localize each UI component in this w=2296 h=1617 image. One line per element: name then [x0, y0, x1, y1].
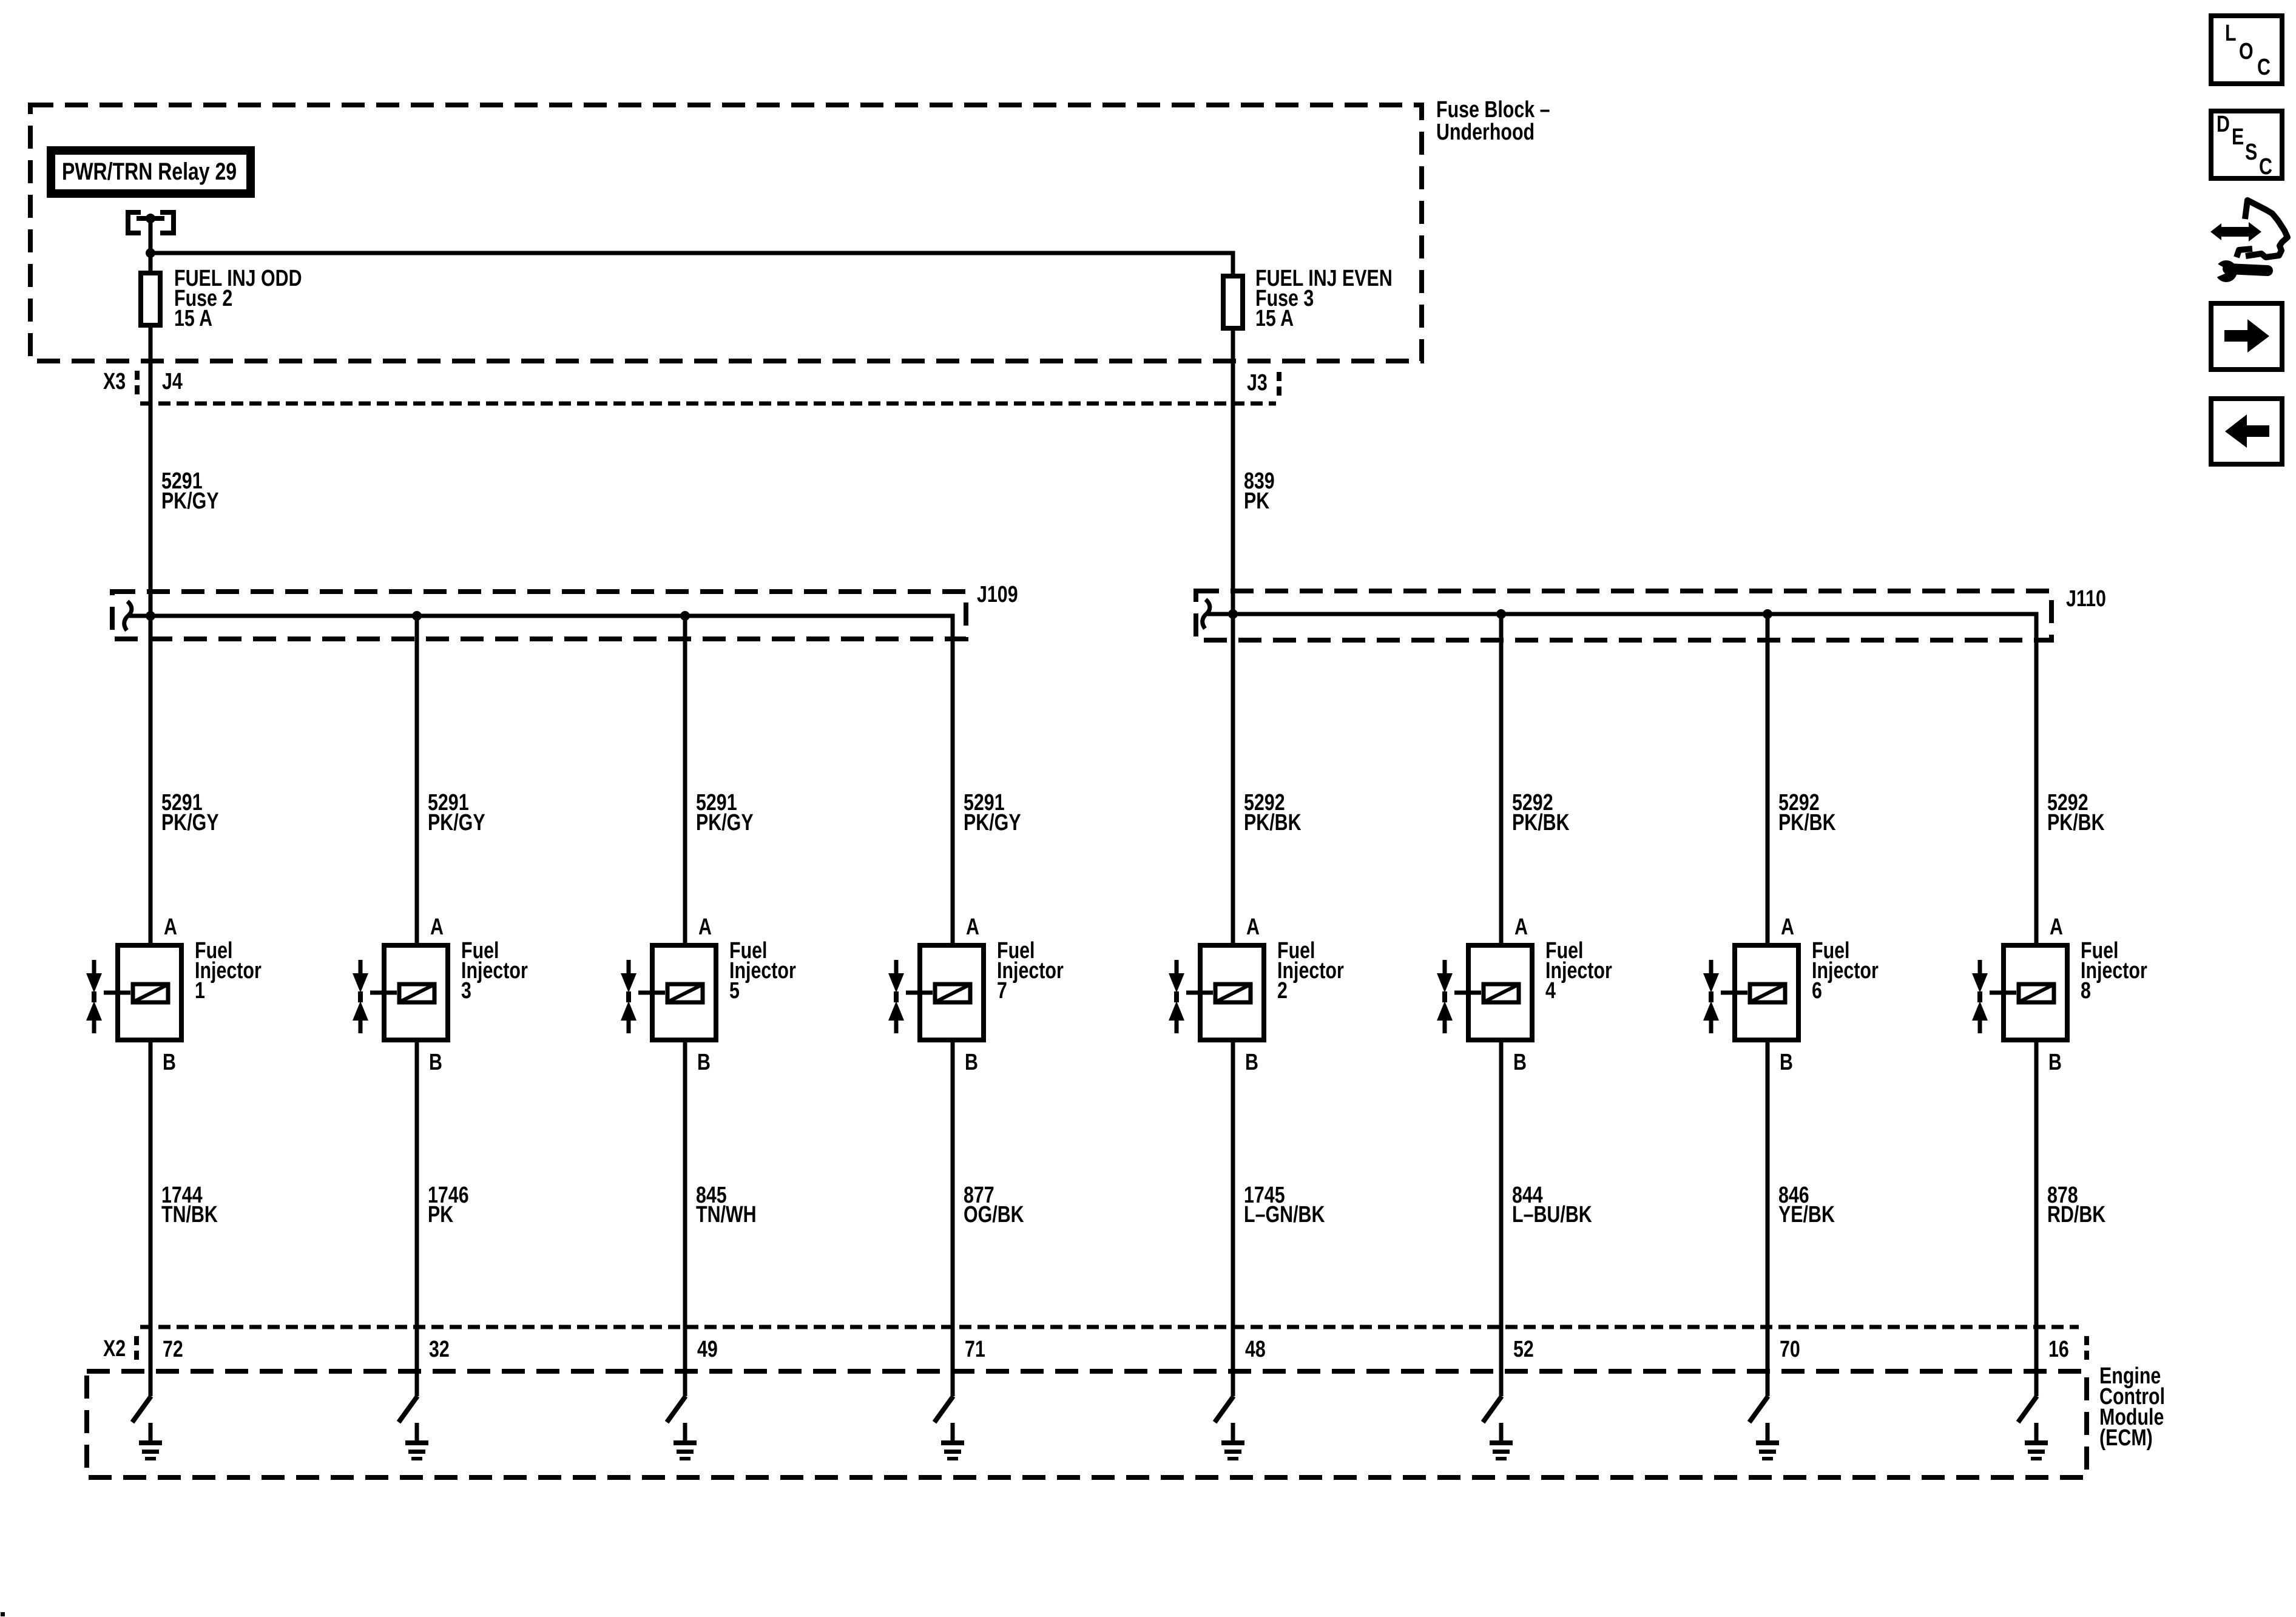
engine control module dashed box [87, 1371, 2087, 1477]
wire label 844 L–BU/BK [1512, 1183, 1592, 1227]
svg-text:C: C [2257, 55, 2271, 80]
wire odd fuse down [149, 327, 153, 945]
svg-text:J109: J109 [977, 582, 1018, 607]
svg-text:7: 7 [997, 978, 1007, 1004]
svg-text:15 A: 15 A [1255, 306, 1294, 331]
svg-text:B: B [1513, 1050, 1527, 1075]
splice pack J110 dashed box [1196, 591, 2051, 640]
ground injector 5 driver [674, 1423, 697, 1460]
driver switch injector 5 [667, 1396, 686, 1422]
svg-text:B: B [965, 1050, 978, 1075]
fuse F3 FUEL INJ EVEN 15A [1223, 266, 1393, 331]
svg-text:2: 2 [1277, 978, 1288, 1004]
driver switch injector 8 [2018, 1396, 2037, 1422]
svg-text:L: L [2225, 21, 2237, 46]
wire label 877 OG/BK [964, 1183, 1024, 1227]
splice pack J109 dashed box [112, 592, 966, 639]
wire label 5292 PK/BK circuit injector 6 [1778, 790, 1836, 836]
fuel injector 6 [1703, 938, 1879, 1040]
wire injector 4 to ECM [1499, 1040, 1504, 1396]
wire label 5292 PK/BK circuit injector 8 [2047, 790, 2105, 836]
svg-text:49: 49 [697, 1337, 718, 1362]
wire injector 7 to ECM [951, 1040, 955, 1396]
svg-text:1: 1 [195, 978, 205, 1004]
wire label 1745 L–GN/BK [1244, 1183, 1325, 1227]
icon LOC box [2211, 16, 2282, 84]
connector X3/J4 separator [135, 371, 140, 396]
fuel injector 1 [86, 938, 262, 1040]
wire J109 to injector 5 [683, 616, 687, 945]
svg-text:48: 48 [1245, 1337, 1266, 1362]
wire even fuse down [1231, 328, 1235, 945]
fuel injector 5 [621, 938, 796, 1040]
wire label 1744 TN/BK [161, 1183, 218, 1227]
svg-text:A: A [966, 914, 979, 940]
wire label 5291 PK/GY circuit injector 3 [428, 790, 485, 836]
wire label 878 RD/BK [2047, 1183, 2105, 1227]
wire relay to junction [149, 218, 153, 275]
wire label 846 YE/BK [1778, 1183, 1835, 1227]
icon forward arrow box [2211, 303, 2282, 370]
svg-text:YE/BK: YE/BK [1778, 1202, 1835, 1227]
driver switch injector 6 [1749, 1396, 1768, 1422]
svg-text:72: 72 [163, 1337, 183, 1362]
svg-text:PK/BK: PK/BK [1512, 810, 1570, 836]
svg-text:PK/GY: PK/GY [161, 488, 219, 514]
ground injector 1 driver [139, 1423, 162, 1460]
svg-text:71: 71 [965, 1337, 985, 1362]
wire label 5292 PK/BK circuit injector 2 [1244, 790, 1302, 836]
svg-text:A: A [164, 914, 177, 940]
node J109-3 [680, 611, 690, 621]
svg-text:PK/GY: PK/GY [428, 810, 485, 836]
driver switch injector 3 [399, 1396, 417, 1422]
svg-text:D: D [2217, 112, 2230, 137]
node J110-1 [1228, 609, 1238, 619]
svg-text:OG/BK: OG/BK [964, 1202, 1024, 1227]
svg-text:A: A [698, 914, 712, 940]
svg-text:L–GN/BK: L–GN/BK [1244, 1202, 1325, 1227]
connector X2 separator [134, 1336, 139, 1365]
svg-text:32: 32 [429, 1337, 450, 1362]
svg-text:15 A: 15 A [174, 306, 212, 331]
svg-text:PK/BK: PK/BK [1244, 810, 1302, 836]
svg-text:PK: PK [1244, 488, 1269, 514]
node J109-2 [412, 611, 422, 621]
icon wrench [2211, 260, 2267, 282]
fuel injector 7 [888, 938, 1064, 1040]
driver switch injector 7 [934, 1396, 953, 1422]
icon DESC box [2211, 111, 2282, 180]
icon tester double arrow [2210, 222, 2261, 241]
wire label 845 TN/WH [696, 1183, 757, 1227]
ground injector 8 driver [2025, 1423, 2048, 1460]
svg-text:X2: X2 [103, 1336, 126, 1362]
svg-text:A: A [1246, 914, 1260, 940]
relay K29 PWR/TRN Relay 29 box [51, 150, 251, 194]
svg-text:5: 5 [729, 978, 740, 1004]
svg-text:Fuse Block –: Fuse Block – [1436, 97, 1550, 123]
svg-text:J4: J4 [162, 369, 183, 394]
wire label 1746 PK [428, 1183, 469, 1227]
svg-text:4: 4 [1545, 978, 1556, 1004]
node J110-3 [1763, 609, 1772, 619]
page corner mark [1, 1612, 5, 1616]
svg-text:J110: J110 [2066, 586, 2106, 612]
wire label 5291 PK/GY circuit injector 5 [696, 790, 754, 836]
wire label 5291 PK/GY circuit injector 1 [161, 790, 219, 836]
wire label 839 PK main [1244, 468, 1275, 514]
svg-text:A: A [2050, 914, 2063, 940]
wire J109 to injector 3 [415, 616, 419, 945]
ground injector 2 driver [1221, 1423, 1244, 1460]
svg-text:PK: PK [428, 1202, 453, 1227]
wire label 5291 PK/GY circuit injector 7 [964, 790, 1021, 836]
svg-text:6: 6 [1812, 978, 1822, 1004]
wire injector 2 to ECM [1231, 1040, 1235, 1396]
icon tester outline [2237, 200, 2288, 257]
svg-text:16: 16 [2048, 1337, 2069, 1362]
wire feed to even fuse [150, 253, 1233, 279]
svg-text:70: 70 [1780, 1337, 1800, 1362]
driver switch injector 2 [1215, 1396, 1234, 1422]
svg-text:O: O [2239, 39, 2254, 64]
svg-text:PK/GY: PK/GY [161, 810, 219, 836]
bus J109 [129, 616, 953, 945]
svg-text:8: 8 [2081, 978, 2091, 1004]
driver switch injector 4 [1483, 1396, 1502, 1422]
svg-text:PK/GY: PK/GY [696, 810, 754, 836]
fuel injector 8 [1972, 938, 2147, 1040]
wire label 5292 PK/BK circuit injector 4 [1512, 790, 1570, 836]
wire label 5291 PK/GY main [161, 468, 219, 514]
svg-text:TN/BK: TN/BK [161, 1202, 218, 1227]
fuse block underhood dashed box [30, 105, 1422, 361]
svg-text:A: A [430, 914, 444, 940]
svg-text:X3: X3 [103, 369, 126, 394]
connector X2 dotted line [140, 1325, 2079, 1329]
svg-text:E: E [2232, 124, 2244, 150]
wire J110 to injector 4 [1499, 614, 1504, 945]
engine control module label [2099, 1363, 2165, 1451]
svg-text:B: B [1245, 1050, 1258, 1075]
bus J110 [1207, 614, 2036, 945]
wire injector 8 to ECM [2034, 1040, 2039, 1396]
relay output terminal connector symbol [128, 212, 174, 233]
connector X2 right separator [2084, 1336, 2089, 1364]
ground injector 7 driver [941, 1423, 964, 1460]
svg-text:B: B [697, 1050, 711, 1075]
wire injector 5 to ECM [683, 1040, 687, 1396]
icon back arrow box [2211, 399, 2282, 464]
svg-text:B: B [2048, 1050, 2062, 1075]
svg-text:PK/BK: PK/BK [2047, 810, 2105, 836]
svg-text:PWR/TRN Relay 29: PWR/TRN Relay 29 [62, 158, 237, 185]
fuse block label [1436, 97, 1550, 145]
fuel injector 4 [1437, 938, 1612, 1040]
wire J110 to injector 6 [1766, 614, 1770, 945]
fuel injector 2 [1169, 938, 1344, 1040]
wire injector 6 to ECM [1766, 1040, 1770, 1396]
svg-text:A: A [1781, 914, 1794, 940]
svg-text:B: B [1780, 1050, 1793, 1075]
node relay output [146, 214, 155, 223]
svg-text:B: B [163, 1050, 176, 1075]
wire injector 3 to ECM [415, 1040, 419, 1396]
node J110-2 [1496, 609, 1506, 619]
splice J110 entry curve [1203, 599, 1210, 629]
svg-text:A: A [1514, 914, 1528, 940]
node feed junction [146, 248, 155, 258]
wire injector 1 to ECM [149, 1040, 153, 1396]
svg-text:PK/BK: PK/BK [1778, 810, 1836, 836]
svg-text:PK/GY: PK/GY [964, 810, 1021, 836]
svg-text:Underhood: Underhood [1436, 120, 1535, 145]
connector J3 separator [1277, 372, 1281, 396]
connector J4-J3 dotted line [140, 402, 1276, 406]
svg-text:3: 3 [461, 978, 471, 1004]
svg-text:L–BU/BK: L–BU/BK [1512, 1202, 1592, 1227]
fuse F2 FUEL INJ ODD 15A [141, 266, 302, 331]
driver switch injector 1 [132, 1396, 151, 1422]
svg-text:RD/BK: RD/BK [2047, 1202, 2105, 1227]
svg-text:B: B [429, 1050, 442, 1075]
ground injector 3 driver [405, 1423, 428, 1460]
svg-text:S: S [2245, 140, 2257, 165]
svg-text:(ECM): (ECM) [2099, 1425, 2153, 1451]
splice J109 entry curve [124, 601, 132, 630]
svg-text:J3: J3 [1247, 370, 1268, 396]
ground injector 6 driver [1756, 1423, 1779, 1460]
svg-text:C: C [2259, 154, 2272, 180]
svg-text:52: 52 [1513, 1337, 1534, 1362]
node J109-1 [146, 611, 155, 621]
fuel injector 3 [353, 938, 528, 1040]
ground injector 4 driver [1490, 1423, 1513, 1460]
svg-text:TN/WH: TN/WH [696, 1202, 757, 1227]
